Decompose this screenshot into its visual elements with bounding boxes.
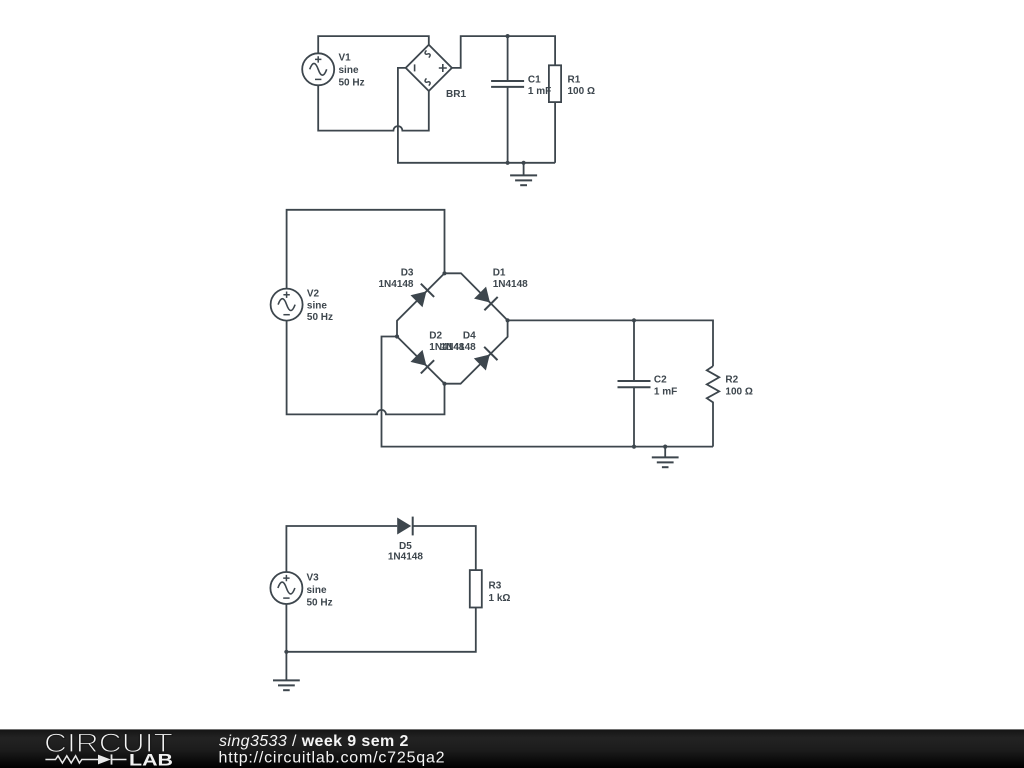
wire output rail xyxy=(508,320,713,366)
svg-text:R2: R2 xyxy=(725,375,738,386)
node C2 bottom xyxy=(632,445,636,449)
wire BR1 + output to top rail xyxy=(452,36,555,68)
wire V2 bottom loop with hop xyxy=(287,320,445,414)
node bridge top xyxy=(442,271,446,275)
label D3 value xyxy=(378,268,413,291)
wire V3 top to D5 xyxy=(286,526,397,572)
resistor R3 xyxy=(470,570,482,607)
node C1 top xyxy=(506,34,510,38)
svg-text:sine: sine xyxy=(339,65,359,76)
ground top circuit xyxy=(523,163,525,176)
label C2 value xyxy=(654,375,677,398)
resistor R1 xyxy=(549,65,561,102)
node C1 bottom xyxy=(506,161,510,165)
svg-text:R3: R3 xyxy=(489,580,502,591)
label V3 value xyxy=(307,573,333,609)
footer bar xyxy=(0,729,1024,768)
voltage source V3 xyxy=(270,572,302,604)
node ground tap middle circuit xyxy=(663,445,667,449)
wire V2 top to bridge top node xyxy=(287,210,445,289)
svg-text:1N4148: 1N4148 xyxy=(378,279,413,290)
label D4 value xyxy=(441,331,476,354)
ground middle circuit xyxy=(664,447,666,458)
label V2 value xyxy=(307,289,333,324)
svg-text:50 Hz: 50 Hz xyxy=(339,77,365,88)
wire V3 bottom xyxy=(285,604,287,652)
svg-text:D2: D2 xyxy=(429,331,442,342)
wire BR1 - terminal down to bottom rail xyxy=(398,68,555,163)
svg-text:C2: C2 xyxy=(654,375,667,386)
svg-text:sing3533 / week 9 sem 2: sing3533 / week 9 sem 2 xyxy=(219,733,409,750)
wire C1 top tap xyxy=(507,36,509,81)
node V3 ground junction xyxy=(284,650,288,654)
svg-text:sine: sine xyxy=(307,301,327,312)
node ground tap top circuit xyxy=(522,161,526,165)
label D1 value xyxy=(493,268,528,291)
svg-text:100 Ω: 100 Ω xyxy=(725,386,752,397)
svg-text:V1: V1 xyxy=(339,52,352,63)
label V1 value xyxy=(339,52,365,88)
svg-text:1 mF: 1 mF xyxy=(654,386,677,397)
svg-text:D1: D1 xyxy=(493,268,506,279)
svg-text:100 Ω: 100 Ω xyxy=(568,86,595,97)
label D5 value xyxy=(388,541,423,562)
svg-text:1 kΩ: 1 kΩ xyxy=(489,593,511,604)
bridge rectifier BR1 xyxy=(406,45,452,91)
svg-text:1N4148: 1N4148 xyxy=(388,551,423,562)
label R1 value xyxy=(568,74,595,97)
node bridge right xyxy=(506,318,510,322)
diode D2 xyxy=(397,337,445,384)
diode D4 xyxy=(445,320,508,383)
voltage source V2 xyxy=(271,289,303,321)
label C1 value xyxy=(528,74,551,97)
svg-text:D5: D5 xyxy=(399,541,412,552)
svg-text:D3: D3 xyxy=(401,268,414,279)
node bridge bottom xyxy=(442,382,446,386)
diode D3 xyxy=(397,273,445,336)
svg-text:V2: V2 xyxy=(307,289,320,300)
svg-text:1 mF: 1 mF xyxy=(528,86,551,97)
label D2 value xyxy=(429,331,464,354)
ground bottom circuit xyxy=(285,652,287,681)
svg-text:sine: sine xyxy=(307,585,327,596)
svg-text:LAB: LAB xyxy=(129,752,173,768)
svg-text:http://circuitlab.com/c725qa2: http://circuitlab.com/c725qa2 xyxy=(219,749,446,766)
svg-text:BR1: BR1 xyxy=(446,89,466,100)
svg-text:1N4148: 1N4148 xyxy=(493,279,528,290)
diode D5 xyxy=(397,518,411,535)
node C2 top xyxy=(632,318,636,322)
wire D5 to R3 xyxy=(413,526,476,570)
svg-text:R1: R1 xyxy=(568,74,581,85)
wire R3 bottom rail xyxy=(286,608,475,652)
diode D1 xyxy=(445,273,508,320)
svg-text:1N4148: 1N4148 xyxy=(441,342,476,353)
svg-text:50 Hz: 50 Hz xyxy=(307,598,333,609)
svg-text:C1: C1 xyxy=(528,74,541,85)
node bridge left xyxy=(395,334,399,338)
capacitor C2 xyxy=(633,320,635,381)
svg-text:50 Hz: 50 Hz xyxy=(307,312,333,323)
capacitor C1 xyxy=(491,80,524,82)
wire V1 top to BR1 node 1 xyxy=(318,36,429,54)
svg-text:D4: D4 xyxy=(463,331,476,342)
svg-text:V3: V3 xyxy=(307,573,320,584)
CircuitLab logo squiggle xyxy=(45,754,126,764)
wire bridge left to bottom rail xyxy=(382,337,714,447)
voltage source V1 xyxy=(302,53,334,85)
wire V1 bottom loop with hop xyxy=(318,85,429,131)
label R2 value xyxy=(725,375,752,398)
label R3 value xyxy=(489,580,511,604)
resistor R2 xyxy=(707,366,719,447)
